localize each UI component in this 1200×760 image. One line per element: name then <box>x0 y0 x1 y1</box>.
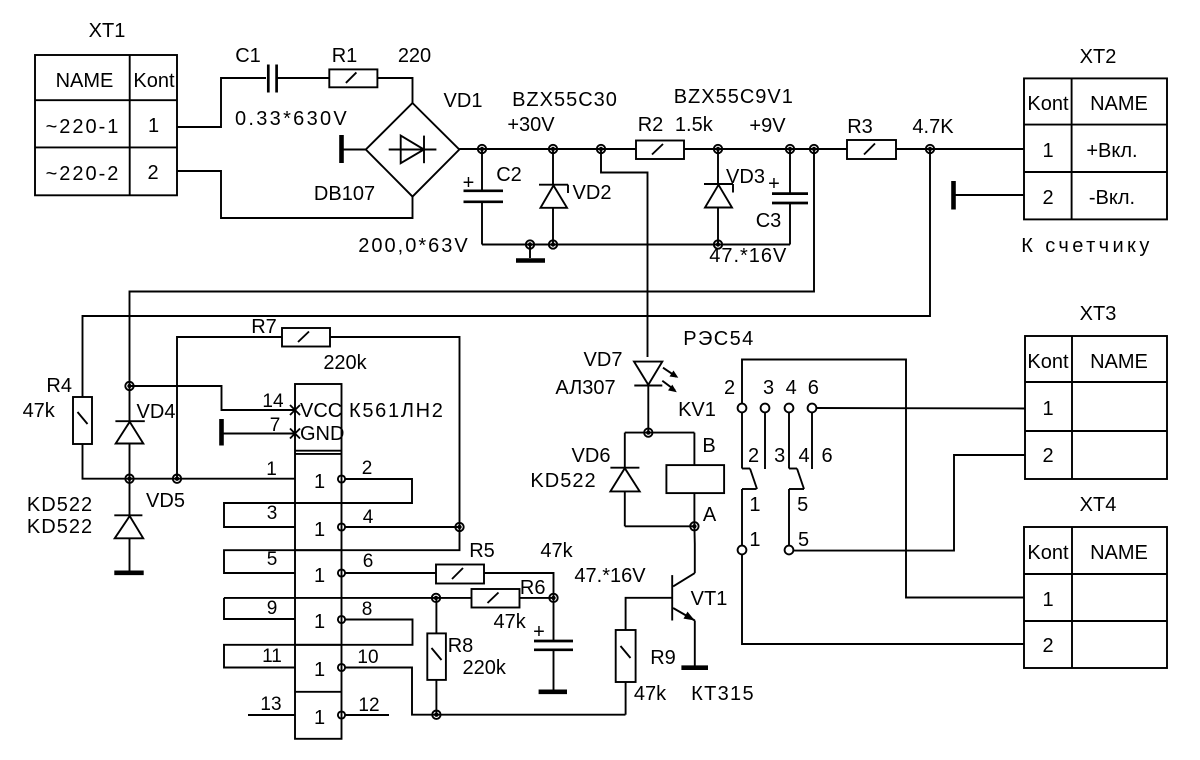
svg-text:47.*16V: 47.*16V <box>574 565 646 587</box>
IC cell divider 2 <box>295 549 342 551</box>
wire R5 right down to R6 node <box>484 573 554 598</box>
svg-text:10: 10 <box>357 647 378 668</box>
svg-text:R4: R4 <box>46 375 72 397</box>
svg-text:XT2: XT2 <box>1080 46 1117 68</box>
wire B: node after R3 down to R4 branch <box>83 149 931 397</box>
svg-text:К счетчику: К счетчику <box>1021 235 1153 257</box>
pin14 x mark <box>290 405 300 415</box>
node on rail at C2 <box>478 145 486 153</box>
svg-text:R6: R6 <box>520 577 546 599</box>
zener diode VD3 <box>674 86 794 245</box>
svg-text:0.33*630V: 0.33*630V <box>235 108 349 130</box>
ground of main rail <box>516 245 545 261</box>
pin7 x mark <box>290 429 300 439</box>
connector XT2 <box>1021 46 1167 257</box>
svg-text:КТ315: КТ315 <box>691 683 755 705</box>
svg-text:R7: R7 <box>251 316 277 338</box>
ground at C4 <box>539 689 567 694</box>
svg-text:+: + <box>768 173 780 195</box>
svg-text:2: 2 <box>724 377 735 399</box>
svg-text:2: 2 <box>748 445 759 467</box>
node R7 right on pin4 wire <box>455 523 463 531</box>
relay coil KV1 <box>666 328 754 526</box>
node VD4/VD5 on pin1 line <box>125 475 133 483</box>
svg-text:NAME: NAME <box>1090 93 1148 115</box>
svg-text:C1: C1 <box>235 45 261 67</box>
relay contact 1 terminal <box>738 546 747 555</box>
svg-text:2: 2 <box>1042 445 1053 467</box>
node R6 right / cap top <box>549 594 557 602</box>
svg-text:NAME: NAME <box>56 70 114 92</box>
svg-text:2: 2 <box>362 458 373 479</box>
capacitor C3 <box>709 149 808 267</box>
svg-text:GND: GND <box>300 423 344 445</box>
wire R7 right to pin4 node <box>330 337 460 527</box>
svg-text:2: 2 <box>1042 635 1053 657</box>
terminal bar at bridge left <box>342 135 366 163</box>
svg-text:A: A <box>703 504 717 526</box>
wire pin8 loop to pin11 <box>224 620 413 668</box>
node on bottom rail at VD2 <box>549 240 557 248</box>
transistor VT1 <box>672 544 755 705</box>
svg-text:47k: 47k <box>23 400 56 422</box>
svg-text:~220-1: ~220-1 <box>46 116 121 138</box>
IC cell divider 3 and wire to pin9 <box>224 597 436 599</box>
wire pin6 to R5 <box>345 572 436 574</box>
node VD7 bottom <box>644 428 652 436</box>
svg-text:VD1: VD1 <box>444 90 483 112</box>
svg-text:NAME: NAME <box>1090 542 1148 564</box>
svg-text:47k: 47k <box>634 683 667 705</box>
relay switch 4-5 <box>789 412 808 545</box>
ground at VD5 <box>114 570 143 575</box>
wire pin4 to node and loop to pin5 <box>224 527 460 573</box>
connector XT3 <box>1025 303 1167 479</box>
resistor R3 <box>847 116 954 159</box>
svg-text:R8: R8 <box>448 635 474 657</box>
resistor R1 <box>329 45 431 87</box>
svg-text:VD6: VD6 <box>572 445 611 467</box>
svg-text:-Вкл.: -Вкл. <box>1089 187 1135 209</box>
relay contact 5 terminal <box>785 546 794 555</box>
svg-text:2: 2 <box>1042 187 1053 209</box>
connector XT1 <box>35 20 177 195</box>
capacitor C1 <box>235 45 349 130</box>
svg-text:+9V: +9V <box>749 115 786 137</box>
svg-text:1: 1 <box>314 471 325 493</box>
svg-text:1: 1 <box>1042 589 1053 611</box>
svg-text:+: + <box>463 172 475 194</box>
wire contact 2 to XT4 pin1 <box>742 360 1024 598</box>
svg-text:XT4: XT4 <box>1080 494 1117 516</box>
svg-text:1: 1 <box>314 611 325 633</box>
svg-text:6: 6 <box>808 377 819 399</box>
IC cell divider 5 <box>295 691 342 693</box>
node on rail at VD2 <box>549 145 557 153</box>
capacitor C2 <box>358 149 522 257</box>
wire contact 6 to XT3 pin1 <box>816 407 1025 410</box>
svg-text:VD3: VD3 <box>726 166 765 188</box>
+30V rail wire <box>459 148 1024 150</box>
svg-text:1: 1 <box>1042 398 1053 420</box>
svg-text:2: 2 <box>147 162 158 184</box>
svg-text:BZX55C9V1: BZX55C9V1 <box>674 86 794 108</box>
svg-text:6: 6 <box>821 445 832 467</box>
resistor R7 <box>251 316 367 374</box>
svg-text:Kont: Kont <box>133 70 175 92</box>
svg-text:200,0*63V: 200,0*63V <box>358 235 469 257</box>
relay contact 6 terminal <box>808 404 817 413</box>
svg-text:47.*16V: 47.*16V <box>709 245 787 267</box>
node on rail at VD3 <box>714 145 722 153</box>
node R8 bottom <box>432 711 440 719</box>
svg-text:1: 1 <box>1042 140 1053 162</box>
svg-text:220k: 220k <box>323 352 367 374</box>
wire pin14 from VD4 node to IC <box>130 386 296 410</box>
svg-text:7: 7 <box>270 415 281 436</box>
svg-text:4: 4 <box>798 445 809 467</box>
resistor R2 <box>636 114 714 159</box>
svg-text:1: 1 <box>314 519 325 541</box>
svg-text:АЛ307: АЛ307 <box>555 377 615 399</box>
connector XT4 <box>1024 494 1167 668</box>
svg-text:VD7: VD7 <box>584 349 623 371</box>
IC cell divider 1 <box>295 502 342 504</box>
relay contact 3 terminal <box>761 404 770 413</box>
IC U1 K561LN2 body <box>262 384 444 739</box>
svg-text:5: 5 <box>267 549 278 570</box>
svg-text:KD522: KD522 <box>27 516 93 538</box>
svg-text:DB107: DB107 <box>314 183 375 205</box>
relay contact labels row1 <box>724 377 819 399</box>
svg-text:~220-2: ~220-2 <box>46 163 121 185</box>
svg-text:1: 1 <box>266 459 277 480</box>
node R6 left / R8 top <box>432 594 440 602</box>
node R7 left on pin1 line <box>173 475 181 483</box>
capacitor C4 47.*16V <box>533 565 646 690</box>
wire bridge bottom to XT1 pin2 <box>177 171 413 218</box>
wire contact 5 to XT3 pin2 <box>793 455 1025 551</box>
wire R8 top <box>435 598 437 634</box>
svg-text:5: 5 <box>797 494 808 516</box>
svg-text:R5: R5 <box>469 540 495 562</box>
svg-text:14: 14 <box>262 391 284 412</box>
relay contact line 3 <box>764 412 766 469</box>
wire node A to VT1 collector <box>693 526 695 544</box>
svg-text:BZX55C30: BZX55C30 <box>512 89 618 111</box>
resistor R9 <box>616 630 676 705</box>
svg-text:R2: R2 <box>638 114 664 136</box>
wire A: node after C3 down to VD4 branch <box>130 149 815 386</box>
svg-text:R9: R9 <box>650 647 676 669</box>
resistor R6 <box>472 577 546 633</box>
svg-text:1: 1 <box>749 494 760 516</box>
svg-text:3: 3 <box>763 377 774 399</box>
zener diode VD2 <box>507 89 618 245</box>
pin13 stub <box>248 714 295 716</box>
wire contact 1 to XT4 pin2 <box>742 554 1024 644</box>
svg-text:XT3: XT3 <box>1080 303 1117 325</box>
wire R6 left node <box>436 597 472 599</box>
svg-text:РЭС54: РЭС54 <box>683 328 754 350</box>
svg-text:1: 1 <box>314 565 325 587</box>
svg-text:6: 6 <box>363 551 374 572</box>
svg-text:KD522: KD522 <box>530 470 596 492</box>
node on rail at wire A <box>810 145 818 153</box>
IC pin1 input line <box>130 478 296 480</box>
wire R6 right node <box>520 597 554 599</box>
svg-text:VD5: VD5 <box>146 490 185 512</box>
svg-text:4.7K: 4.7K <box>912 116 954 138</box>
wire VD6 bottom to node A <box>625 525 695 527</box>
svg-text:220k: 220k <box>463 657 507 679</box>
wire pin10 to bottom rail <box>345 668 625 715</box>
svg-text:KD522: KD522 <box>27 494 93 516</box>
terminal bar at IC GND pin7 <box>222 419 296 446</box>
svg-text:Kont: Kont <box>1027 93 1069 115</box>
svg-text:Kont: Kont <box>1027 351 1069 373</box>
resistor R4 <box>23 375 92 444</box>
node on rail at wire B <box>926 145 934 153</box>
wire R4 bottom to pin1 line <box>83 444 130 479</box>
wire R8 bottom <box>435 680 437 715</box>
bridge rectifier VD1 <box>314 90 483 205</box>
diode VD5 <box>27 479 185 571</box>
relay contact labels row2 <box>748 445 833 467</box>
terminal bar at XT2 pin2 <box>954 181 1025 210</box>
resistor R8 <box>427 633 507 680</box>
node on bottom rail at C2 ground <box>526 240 534 248</box>
svg-text:+30V: +30V <box>507 114 555 136</box>
svg-text:13: 13 <box>260 694 281 715</box>
IC cell divider 4 <box>295 644 342 646</box>
node on rail at C3 <box>786 145 794 153</box>
relay contact 4 terminal <box>785 404 794 413</box>
svg-text:VD2: VD2 <box>573 182 612 204</box>
svg-text:R1: R1 <box>332 45 358 67</box>
diode VD6 <box>530 433 639 527</box>
svg-text:12: 12 <box>358 695 379 716</box>
svg-text:1: 1 <box>314 707 325 729</box>
wire pin2 loop to pin3 <box>224 479 412 527</box>
svg-text:47k: 47k <box>540 540 573 562</box>
node on rail at down wire <box>597 145 605 153</box>
wire C1 to R1 <box>277 77 329 79</box>
resistor R5 <box>436 540 574 584</box>
node VD4 top <box>125 382 133 390</box>
svg-text:+: + <box>533 621 545 643</box>
svg-text:B: B <box>702 435 715 457</box>
node A <box>690 522 698 530</box>
svg-text:KV1: KV1 <box>678 399 716 421</box>
svg-text:NAME: NAME <box>1090 351 1148 373</box>
node on bottom rail at VD3 <box>714 240 722 248</box>
wire node to VD6 and coil <box>625 432 695 434</box>
svg-text:XT1: XT1 <box>89 20 126 42</box>
svg-text:1.5k: 1.5k <box>675 114 714 136</box>
svg-text:4: 4 <box>786 377 797 399</box>
svg-text:5: 5 <box>798 529 809 551</box>
wire R9 top to VT1 base <box>626 598 673 630</box>
svg-text:1: 1 <box>749 529 760 551</box>
svg-text:3: 3 <box>774 445 785 467</box>
svg-text:11: 11 <box>262 646 282 667</box>
wire XT1 pin1 to C1 <box>177 78 266 127</box>
svg-text:VCC: VCC <box>300 400 342 422</box>
wire R9 bottom <box>625 682 627 715</box>
svg-text:1: 1 <box>314 659 325 681</box>
relay switch 2-1 <box>742 412 760 545</box>
svg-text:+Вкл.: +Вкл. <box>1086 140 1137 162</box>
ground at VT1 emitter <box>681 665 708 670</box>
wire R1 to bridge top <box>377 78 412 103</box>
svg-text:Kont: Kont <box>1027 542 1069 564</box>
relay contact 2 terminal <box>738 404 747 413</box>
wire loop into pin9 <box>224 598 295 619</box>
svg-text:C3: C3 <box>756 210 782 232</box>
wire rail down to VD7 branch <box>601 149 648 357</box>
LED VD7 <box>555 349 678 433</box>
relay contact line 6 <box>811 412 813 469</box>
bottom rail wire <box>482 244 790 246</box>
svg-text:4: 4 <box>363 507 374 528</box>
svg-text:VD4: VD4 <box>137 401 176 423</box>
pin12 stub <box>345 714 389 716</box>
svg-text:VT1: VT1 <box>691 588 728 610</box>
svg-text:К561ЛН2: К561ЛН2 <box>349 400 445 422</box>
svg-text:8: 8 <box>362 599 373 620</box>
svg-text:9: 9 <box>267 598 278 619</box>
diode VD4 <box>115 386 175 479</box>
svg-text:C2: C2 <box>496 164 522 186</box>
svg-text:1: 1 <box>148 115 159 137</box>
svg-text:3: 3 <box>267 503 278 524</box>
svg-text:220: 220 <box>398 45 431 67</box>
svg-text:47k: 47k <box>493 611 526 633</box>
svg-text:R3: R3 <box>847 116 873 138</box>
wire R7 left to pin1 line <box>177 337 282 479</box>
